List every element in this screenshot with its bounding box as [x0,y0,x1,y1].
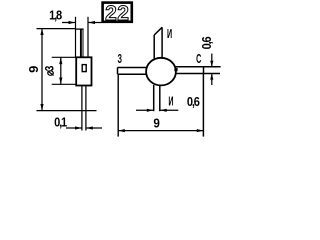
dimension 9 (side view) dimension line with arrows [40,28,43,110]
svg-text:0,1: 0,1 [54,114,67,129]
side view: bottom lead wire of И [82,86,86,131]
side view: transistor body (can seen edge-on) [76,57,91,85]
svg-text:И: И [168,95,173,109]
dimension 9 (side view) extension lines [37,28,76,30]
dimension 0,6 (right lead) dimension line with arrows [210,54,213,86]
dimension diameter 3 extension lines [52,56,76,58]
top view: left lead З [118,68,148,75]
svg-text:9: 9 [153,116,160,131]
top view: package circle [146,58,176,86]
dimension 9 (bottom) dimension line with arrows [118,129,203,132]
svg-text:9: 9 [26,66,41,73]
figure number box 22 [103,2,132,25]
top view: right lead С with weld tab [174,67,220,74]
side view: flattened top lead (blade) of И [75,17,88,58]
dimension diameter 3 dimension line with arrows [59,57,62,84]
dimension 1,8 dimension line with arrows [62,21,102,24]
svg-text:И: И [167,28,172,42]
svg-text:С: С [196,53,201,67]
top view: downward lead И [154,85,160,111]
dimension 0,1 arrows (side view bottom lead) [66,126,102,129]
svg-text:⌀3: ⌀3 [44,66,57,76]
svg-text:0,6: 0,6 [187,94,200,109]
dimension 0,6 (bottom lead) arrows [136,109,178,112]
svg-text:22: 22 [105,2,129,25]
side view: gate lead seen end-on (inner rectangle) [82,65,86,72]
dimension 9 (bottom) extension lines [117,74,119,136]
top view: upward lead И with beveled tip [154,27,162,59]
svg-text:1,8: 1,8 [49,8,62,23]
svg-text:0,6: 0,6 [199,36,214,49]
svg-text:З: З [117,53,122,67]
